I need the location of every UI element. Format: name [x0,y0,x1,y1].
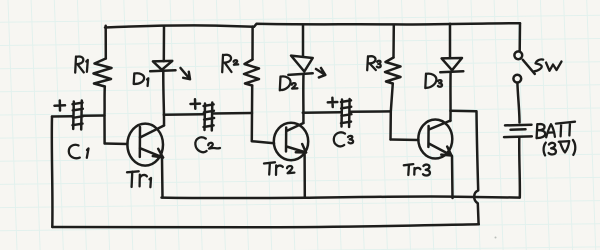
wire R3 top drop [392,25,395,58]
wire Tr1 emitter drop [161,158,164,198]
transistor Tr1 [127,124,164,166]
capacitor C2 plus [191,99,201,108]
label Tr2 [264,162,294,175]
wire C2 right [213,112,253,115]
wire Tr2 base [252,141,274,143]
wire Tr3 base [391,138,419,141]
label BATT [537,122,576,139]
wire C1 left vertical [51,117,54,228]
capacitor C3 plus [328,98,338,107]
LED D1 [153,61,172,70]
capacitor C1 [73,101,84,130]
resistor R1 [94,59,112,87]
label 3V battery voltage [544,140,576,155]
wire top power rail [105,23,520,27]
resistor R3 [385,58,401,84]
wire C1 left [52,115,73,118]
LED D2 [291,56,313,72]
wire D1 cathode to Tr1 collector [162,71,165,126]
wire C1 right [82,114,105,117]
label C1 [69,145,89,159]
switch SW blade [523,60,535,74]
wire Tr1 base [105,142,128,145]
wire Tr3 emitter drop [451,156,454,198]
battery BATT plates [504,125,532,137]
switch SW bottom contact [513,75,521,83]
label R3 [367,56,381,70]
label SW [534,59,562,71]
wire D2 cathode to Tr2 collector [302,74,305,123]
wire C2 left [164,113,204,116]
wire D3 top drop [449,24,452,58]
wire battery negative down to ground rail [518,138,521,198]
paper speck [495,237,497,239]
label D3 [425,74,442,88]
wire D3 node to right feedback vertical [450,110,476,113]
wire D2 top drop [302,26,305,56]
wire R1 bottom to base corner [103,87,106,144]
LED D2 arrow [316,68,325,77]
wire feedback bottom rail [52,224,479,227]
label Tr1 [127,171,151,187]
LED D3 [442,58,462,70]
wire R3 bottom to base corner [391,84,393,140]
label R2 [222,55,238,72]
wire R2 bottom to base corner [251,86,254,142]
capacitor C3 [341,99,351,127]
label C2 [195,137,220,152]
wire feedback right vertical with hop over emitter rail [474,111,478,224]
wire emitter ground rail [162,196,520,198]
label C3 [334,132,353,146]
resistor R2 [244,60,259,86]
wire C3 right [350,110,391,113]
wire C3 left [303,111,341,114]
label D1 [134,73,149,86]
label D2 [280,76,298,90]
capacitor C2 [204,103,215,131]
capacitor C1 plus [55,101,66,111]
transistor Tr2 [274,123,308,160]
wire switch to battery [517,83,519,123]
wire Tr2 emitter drop [303,154,306,198]
LED D1 arrow [181,68,191,79]
transistor Tr3 [418,120,452,159]
label R1 [75,57,88,73]
label Tr3 [404,164,430,175]
wire R2 top drop [251,27,254,60]
wire D3 cathode to Tr3 collector [449,72,452,121]
wire rail right corner down to switch [518,23,521,51]
wire R1 top drop [104,26,107,59]
switch SW top contact [514,51,522,59]
wire D1 top drop [163,27,166,62]
